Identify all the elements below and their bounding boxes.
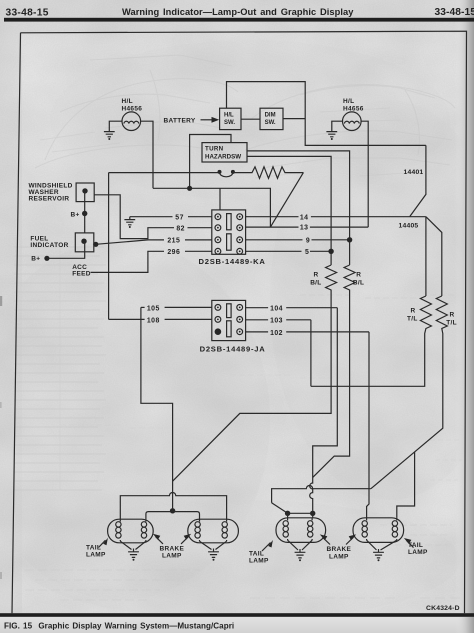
- wire 105 run down to left lamps: [141, 307, 173, 508]
- turn hazard switch box: [202, 143, 247, 162]
- bleed-through ghost table (decorative): [14, 247, 106, 490]
- svg-text:H/L: H/L: [343, 98, 354, 105]
- svg-text:BRAKE: BRAKE: [327, 546, 352, 553]
- svg-text:SW.: SW.: [265, 120, 276, 126]
- wire 102 run down to lamp4: [367, 332, 369, 518]
- wire hazard output 2 to R B/L 1: [247, 156, 331, 265]
- wire headlamp-left to node y188: [140, 121, 153, 188]
- connector D2SB-14489-KA: [199, 210, 266, 266]
- svg-text:TAIL: TAIL: [408, 542, 423, 549]
- svg-text:H/L: H/L: [224, 113, 234, 119]
- tail-stop lamp 4 (right outer): [353, 518, 404, 543]
- svg-text:215: 215: [167, 237, 180, 244]
- headlamp left H/L H4656: [122, 98, 143, 131]
- lamp2 filament coils: [195, 519, 227, 541]
- header title: [122, 7, 354, 17]
- svg-text:LAMP: LAMP: [162, 553, 182, 560]
- battery label and arrow: [164, 117, 220, 125]
- tail-stop lamp 3 (right inner): [276, 518, 326, 543]
- lamp4 filament coils: [362, 518, 398, 540]
- node wire9 junction: [347, 237, 352, 242]
- svg-text:14: 14: [300, 214, 309, 221]
- fuel indicator box: [30, 233, 93, 252]
- wire 105: [141, 305, 212, 312]
- svg-text:TAIL: TAIL: [249, 551, 264, 558]
- lamp3 ground: [288, 540, 313, 561]
- plate code CK4324-D: [426, 605, 460, 612]
- svg-text:CK4324-D: CK4324-D: [426, 605, 460, 612]
- wire y188 main run to wire13 drop: [153, 188, 270, 227]
- bleed-through ghost text bottom (decorative): [25, 295, 462, 600]
- wire H/L SW to DIM SW: [241, 118, 260, 120]
- svg-text:B+: B+: [31, 255, 40, 262]
- svg-text:13: 13: [300, 225, 309, 232]
- right tail rail: [272, 486, 371, 514]
- wire 108 riser: [108, 173, 110, 320]
- svg-text:82: 82: [176, 225, 185, 232]
- dimmer switch box DIM SW.: [260, 108, 283, 129]
- wire R B/L 1 to left brake feed (diagonal): [173, 292, 332, 481]
- wire turn-hazard feed from node y188: [190, 135, 231, 189]
- wire left brake feeds into lamp coils: [146, 512, 200, 520]
- ground (left headlamp): [104, 132, 115, 140]
- arrow tail lamp 2: [249, 540, 273, 565]
- arrow brake lamp right pair: [320, 534, 356, 560]
- svg-text:LAMP: LAMP: [408, 549, 428, 556]
- wire 104: [246, 306, 338, 313]
- arrow tail lamp 1: [86, 538, 108, 559]
- svg-text:BRAKE: BRAKE: [160, 546, 185, 553]
- svg-text:33-48-15: 33-48-15: [435, 7, 474, 18]
- svg-text:SW.: SW.: [224, 120, 235, 126]
- lamp1 ground: [120, 541, 146, 561]
- svg-text:105: 105: [147, 305, 160, 312]
- windshield washer reservoir box: [29, 182, 95, 202]
- svg-text:108: 108: [147, 317, 160, 324]
- svg-text:102: 102: [270, 330, 283, 337]
- resistor (hazard series): [233, 167, 303, 179]
- svg-text:FEED: FEED: [72, 271, 91, 278]
- svg-text:B/L: B/L: [310, 279, 321, 286]
- svg-text:R: R: [356, 271, 361, 278]
- wire reservoir terminal to B+ and fuel box: [84, 192, 86, 233]
- svg-text:33-48-15: 33-48-15: [6, 7, 49, 18]
- node B+ (fuel) and wire to fuel box: [31, 242, 84, 262]
- wire H/L SW top feed loop to 14401 lead: [227, 82, 426, 146]
- node B+ (reservoir): [71, 211, 88, 219]
- wire tail branch to lamp4 right coil: [397, 452, 415, 518]
- svg-text:T/L: T/L: [446, 319, 457, 326]
- node wire5 junction: [328, 249, 333, 254]
- wire hazard output 1 to R B/L 2: [247, 151, 350, 265]
- wire 14: [246, 214, 426, 221]
- svg-text:14405: 14405: [399, 223, 419, 230]
- node left brake junction: [170, 508, 175, 513]
- wire right brake junction links: [288, 511, 313, 518]
- svg-text:T/L: T/L: [407, 315, 418, 322]
- svg-text:9: 9: [306, 237, 310, 244]
- svg-text:BATTERY: BATTERY: [164, 118, 196, 125]
- svg-text:D2SB-14489-KA: D2SB-14489-KA: [199, 257, 266, 266]
- wire 108: [109, 317, 212, 324]
- tail-stop lamp 1 (left outer): [108, 519, 154, 543]
- wire 14 split to R T/L resistors: [426, 217, 442, 296]
- node junction on y188 wire: [187, 186, 192, 191]
- wire 9: [246, 237, 350, 244]
- headlamp right H/L H4656: [343, 98, 364, 131]
- tail-stop lamp 2 (left inner): [188, 519, 239, 543]
- wire headlamp-right down to wire 13: [361, 121, 369, 227]
- wire headlamp-right to ground: [332, 121, 343, 131]
- headlamp switch box H/L SW.: [220, 108, 241, 129]
- wire 215 from fuel indicator: [93, 237, 212, 247]
- svg-text:Warning Indicator—Lamp-Out and: Warning Indicator—Lamp-Out and Graphic D…: [122, 7, 354, 17]
- svg-text:LAMP: LAMP: [249, 558, 269, 565]
- 14405 harness label: [399, 223, 419, 230]
- svg-text:57: 57: [175, 214, 184, 221]
- svg-text:5: 5: [305, 249, 309, 256]
- lamp2 ground: [200, 541, 227, 561]
- node right brake junction left: [285, 511, 290, 516]
- resistor R T/L 1: [311, 296, 432, 386]
- footer heavy rule: [0, 613, 474, 617]
- fuse wire left corner from wire108 riser: [109, 172, 220, 174]
- svg-text:H4656: H4656: [122, 106, 143, 113]
- scan edge artifacts (decorative): [0, 296, 2, 579]
- svg-text:TAIL: TAIL: [86, 544, 101, 551]
- wire feed into connector KA top: [219, 188, 221, 210]
- ground (right headlamp): [326, 132, 337, 140]
- header-left page number 33-48-15: [6, 7, 49, 18]
- acc feed label: [72, 264, 91, 277]
- wire 296 from acc feed: [91, 249, 212, 273]
- svg-text:14401: 14401: [404, 169, 424, 176]
- header heavy rule: [4, 18, 474, 22]
- svg-text:H/L: H/L: [122, 98, 133, 105]
- svg-text:B+: B+: [71, 211, 80, 218]
- wire 103 riser to R T/L 1: [310, 320, 312, 387]
- resistor R B/L 1: [310, 265, 336, 292]
- fuse symbol: [218, 170, 235, 177]
- 14401 harness bracket: [404, 145, 426, 216]
- svg-text:104: 104: [270, 306, 283, 313]
- svg-text:H4656: H4656: [343, 106, 364, 113]
- svg-text:LAMP: LAMP: [329, 553, 349, 560]
- wire diagonal resistor to wire 13: [270, 173, 303, 228]
- svg-text:INDICATOR: INDICATOR: [30, 242, 68, 249]
- svg-text:296: 296: [167, 249, 180, 256]
- wire 104 run down to right brake junction: [310, 308, 338, 511]
- svg-text:TURN: TURN: [205, 145, 224, 152]
- wire 82 from reservoir: [94, 195, 212, 239]
- wire 102: [246, 330, 369, 337]
- svg-text:B/L: B/L: [353, 279, 364, 286]
- wire DIM SW right to feed riser: [283, 118, 305, 120]
- wire R B/L 2 to right brake feed (diagonal): [313, 292, 350, 477]
- bleed-through ghost artwork (decorative, not labelled individually): [35, 55, 455, 178]
- lamp1 filament coils: [116, 519, 147, 541]
- wire 13: [246, 225, 369, 232]
- svg-text:HAZARDSW: HAZARDSW: [205, 154, 241, 161]
- svg-text:D2SB-14489-JA: D2SB-14489-JA: [200, 345, 266, 354]
- svg-text:RESERVOIR: RESERVOIR: [29, 196, 70, 203]
- footer caption: [4, 622, 234, 631]
- wire 5: [246, 249, 332, 256]
- arrow tail lamp 3: [404, 538, 428, 556]
- connector D2SB-14489-JA: [200, 300, 266, 353]
- wire headlamp-left to ground: [109, 121, 122, 131]
- svg-text:DIM: DIM: [265, 113, 276, 119]
- ground (wire 57): [124, 217, 135, 228]
- wire 103: [246, 318, 311, 325]
- node right brake junction right: [310, 511, 315, 516]
- lamp3 filament coils: [283, 518, 313, 540]
- left tail rail: [120, 493, 226, 520]
- svg-text:R: R: [411, 307, 416, 314]
- svg-text:FIG. 15 Graphic Display Warni: FIG. 15 Graphic Display Warning System—M…: [4, 622, 234, 631]
- svg-text:R: R: [314, 271, 319, 278]
- header-right page number 33-48-15: [435, 7, 474, 18]
- svg-text:LAMP: LAMP: [86, 552, 106, 559]
- svg-text:103: 103: [270, 318, 283, 325]
- arrow brake lamp left pair: [153, 534, 191, 560]
- svg-text:R: R: [450, 311, 455, 318]
- lamp4 ground: [367, 540, 397, 561]
- resistor R B/L 2: [344, 265, 364, 292]
- wire 57: [130, 214, 212, 221]
- resistor R T/L 2: [371, 296, 457, 489]
